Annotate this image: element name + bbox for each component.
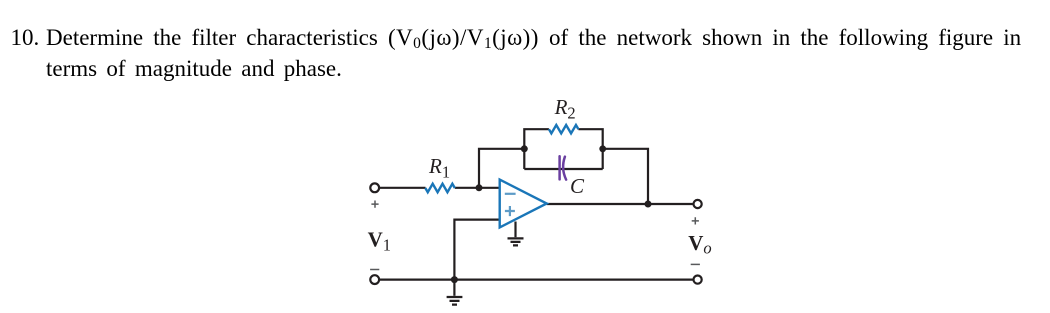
- svg-text:R1: R1: [428, 154, 450, 181]
- svg-text:V1: V1: [368, 227, 391, 254]
- svg-text:C: C: [570, 174, 585, 198]
- svg-text:Vo: Vo: [688, 231, 711, 258]
- svg-text:R2: R2: [554, 95, 576, 122]
